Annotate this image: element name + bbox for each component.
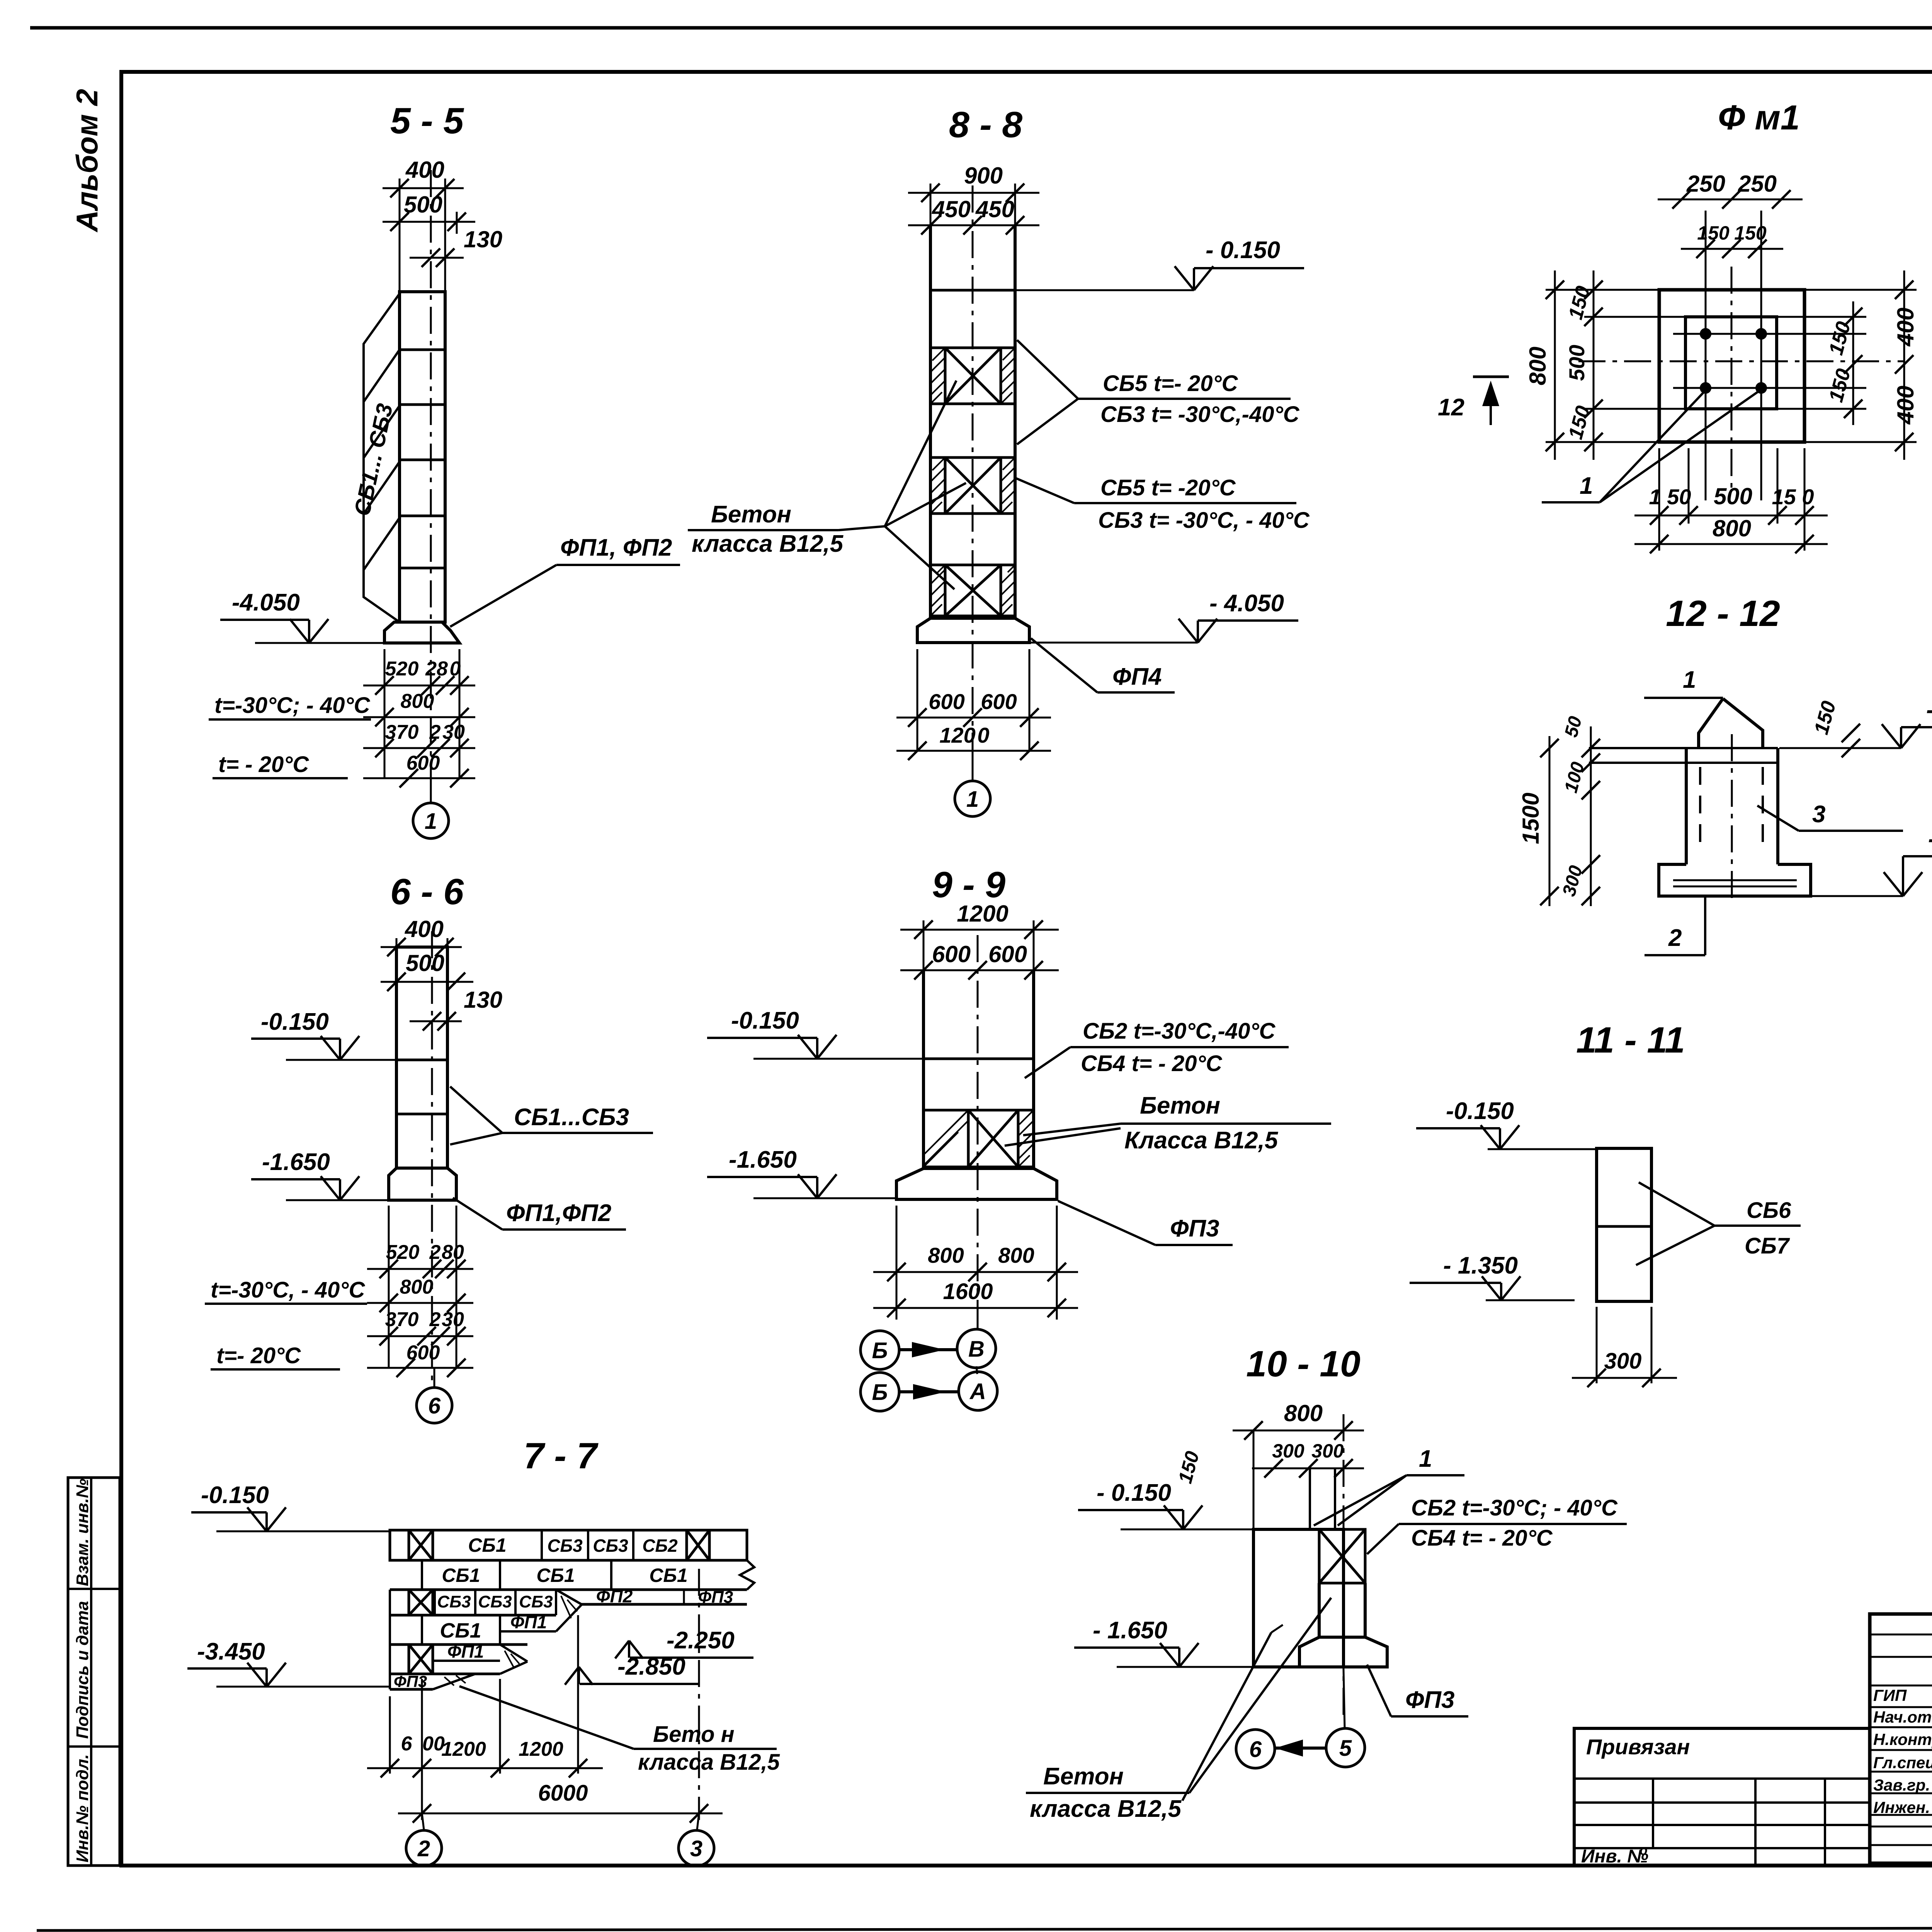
svg-text:СБ2 t=-30°С; - 40°С: СБ2 t=-30°С; - 40°С — [1411, 1495, 1618, 1520]
svg-text:800: 800 — [1525, 347, 1551, 385]
svg-text:СБ3: СБ3 — [547, 1536, 583, 1556]
svg-text:370: 370 — [385, 721, 419, 743]
12-12 pedestal pointed top — [1699, 699, 1723, 748]
8-8 column edge extension lines — [930, 184, 932, 225]
svg-text:1200: 1200 — [957, 901, 1008, 927]
svg-text:6: 6 — [428, 1393, 441, 1418]
svg-text:500: 500 — [1714, 483, 1752, 509]
7-7 thin strip FP2 FP3 — [582, 1603, 747, 1606]
svg-text:30: 30 — [442, 1308, 464, 1331]
6-6 lower dim extension lines — [388, 1206, 390, 1368]
svg-text:Бетон: Бетон — [1043, 1763, 1124, 1790]
svg-text:СБ3: СБ3 — [593, 1536, 628, 1556]
svg-text:8 - 8: 8 - 8 — [949, 104, 1022, 145]
5-5 block callout bracket — [364, 294, 400, 622]
7-7 axis circle 3 — [697, 1813, 699, 1830]
svg-text:ФП2: ФП2 — [596, 1586, 633, 1606]
svg-text:Привязан: Привязан — [1586, 1735, 1690, 1759]
svg-text:1: 1 — [425, 809, 437, 834]
svg-text:СБ3 t= -30°С,-40°С: СБ3 t= -30°С,-40°С — [1100, 402, 1300, 427]
9-9 column axis dash-dot — [977, 935, 979, 1314]
FM1 right dims 400 400 — [1903, 270, 1905, 460]
7-7 step hatch band upper — [556, 1590, 582, 1604]
svg-text:СБ3: СБ3 — [437, 1592, 471, 1611]
svg-text:СБ1: СБ1 — [442, 1565, 480, 1586]
7-7 row 5 X box and FP1 — [409, 1645, 433, 1674]
svg-text:СБ3: СБ3 — [519, 1592, 553, 1611]
svg-text:класса В12,5: класса В12,5 — [1030, 1796, 1182, 1822]
svg-text:600: 600 — [406, 752, 440, 774]
10-10 axis dash-dot — [1343, 1414, 1345, 1716]
svg-text:-2.250: -2.250 — [667, 1627, 735, 1654]
svg-text:250: 250 — [1738, 171, 1777, 197]
11-11 bottom extensions — [1596, 1307, 1598, 1383]
7-7 block wall row 1 outline — [390, 1530, 747, 1560]
FM1 dot row lines — [1673, 333, 1866, 335]
svg-text:Н.контр.: Н.контр. — [1873, 1730, 1932, 1748]
12-12 axis dash-dot — [1731, 734, 1733, 900]
svg-text:1: 1 — [1580, 473, 1593, 499]
11-11 block column — [1597, 1148, 1651, 1301]
6-6 column axis dash-dot — [431, 931, 433, 1387]
7-7 row1 block SB3 b — [632, 1530, 634, 1560]
svg-text:1600: 1600 — [943, 1279, 993, 1304]
FM1 anchor dots — [1700, 328, 1711, 340]
5-5 dim 130 line — [410, 257, 464, 259]
svg-text:800: 800 — [400, 1276, 434, 1298]
svg-text:СБ5 t= -20°С: СБ5 t= -20°С — [1100, 475, 1236, 500]
10-10 extension lines and rebar stubs — [1253, 1430, 1255, 1529]
svg-text:ФП1: ФП1 — [447, 1641, 484, 1662]
5-5 dim 500 right extension — [456, 212, 458, 234]
svg-text:СБ5 t=- 20°С: СБ5 t=- 20°С — [1103, 371, 1238, 396]
svg-text:Инв.№ подл.: Инв.№ подл. — [73, 1754, 92, 1862]
svg-text:6000: 6000 — [538, 1781, 588, 1806]
FM1 horizontal axis dash-dot — [1578, 361, 1905, 362]
svg-text:СБ1: СБ1 — [468, 1534, 506, 1556]
svg-text:300: 300 — [1272, 1440, 1304, 1462]
7-7 row 2 blocks SB1 SB1 SB1 — [390, 1559, 747, 1562]
svg-text:СБ2 t=-30°С,-40°С: СБ2 t=-30°С,-40°С — [1083, 1019, 1276, 1044]
svg-text:400: 400 — [405, 157, 444, 183]
9-9 axis circles B-V — [977, 1308, 979, 1330]
svg-text:250: 250 — [1686, 171, 1725, 197]
7-7 step hatch band mid — [500, 1645, 527, 1662]
8-8 column axis dash-dot — [972, 185, 974, 781]
FM1 vertical axis dash-dot — [1731, 267, 1733, 491]
8-8 footing FP4 — [917, 618, 1029, 643]
svg-text:0: 0 — [450, 658, 461, 680]
5-5 column body — [400, 292, 445, 622]
svg-text:600: 600 — [932, 941, 971, 967]
10-10 axis circles 6 5 — [1344, 1669, 1345, 1728]
svg-text:ГИП: ГИП — [1873, 1686, 1907, 1704]
svg-text:СБ3: СБ3 — [478, 1592, 512, 1611]
privyazan table — [1574, 1728, 1870, 1866]
svg-text:6: 6 — [1249, 1737, 1262, 1762]
svg-text:- 0.150: - 0.150 — [1097, 1480, 1171, 1506]
svg-text:-0.150: -0.150 — [1446, 1098, 1514, 1124]
8-8 block 2 with X and hatch — [930, 456, 1015, 459]
svg-text:-4.050: -4.050 — [232, 589, 300, 616]
svg-text:Б: Б — [872, 1338, 888, 1363]
5-5 dim 400 line — [383, 187, 464, 189]
svg-text:1: 1 — [1419, 1446, 1432, 1472]
5-5 footing FP polygon — [384, 622, 459, 643]
FM1 left dims 150 500 150 — [1593, 270, 1595, 460]
svg-text:300: 300 — [1311, 1440, 1344, 1462]
svg-text:12 - 12: 12 - 12 — [1666, 593, 1780, 634]
svg-text:СБ1: СБ1 — [440, 1619, 481, 1642]
svg-text:6 - 6: 6 - 6 — [390, 871, 464, 912]
svg-text:2: 2 — [417, 1836, 430, 1861]
svg-text:7 - 7: 7 - 7 — [524, 1435, 599, 1476]
svg-text:СБ6: СБ6 — [1747, 1198, 1791, 1223]
svg-text:- 1.350: - 1.350 — [1443, 1252, 1518, 1279]
svg-text:3: 3 — [690, 1836, 702, 1861]
svg-text:9 - 9: 9 - 9 — [932, 864, 1005, 905]
svg-text:Бетон: Бетон — [1140, 1092, 1220, 1119]
svg-text:120: 120 — [939, 723, 975, 747]
svg-text:300: 300 — [1604, 1349, 1642, 1374]
svg-text:Бето н: Бето н — [653, 1722, 735, 1747]
FM1 right extensions — [1804, 289, 1917, 291]
svg-text:СБ4 t= - 20°С: СБ4 t= - 20°С — [1411, 1526, 1553, 1551]
svg-text:400: 400 — [1893, 386, 1918, 425]
svg-text:900: 900 — [964, 163, 1003, 189]
svg-text:400: 400 — [1893, 308, 1918, 347]
left stamp column boxes — [68, 1478, 120, 1866]
FM1 section marker 12 left — [1473, 376, 1509, 378]
svg-text:500: 500 — [404, 192, 442, 218]
svg-text:15 0: 15 0 — [1772, 485, 1814, 509]
svg-text:3: 3 — [1812, 801, 1825, 828]
6-6 axis circle 6 — [434, 1368, 435, 1388]
12-12 floor slab double lines — [1589, 747, 1778, 749]
svg-text:ФП4: ФП4 — [1112, 663, 1162, 690]
7-7 row1 block SB2 — [685, 1530, 688, 1560]
svg-text:2: 2 — [429, 1241, 441, 1264]
svg-text:Подпись и дата: Подпись и дата — [73, 1601, 92, 1739]
svg-text:А: А — [969, 1379, 986, 1404]
svg-text:Класса В12,5: Класса В12,5 — [1124, 1127, 1279, 1154]
svg-text:класса В12,5: класса В12,5 — [692, 531, 844, 557]
5-5 axis circle 1 — [430, 778, 432, 803]
7-7 axis extension lines — [389, 1696, 391, 1774]
svg-text:2: 2 — [1668, 925, 1682, 951]
7-7 row1 block SB3 a — [587, 1530, 589, 1560]
svg-text:Инжен.: Инжен. — [1873, 1798, 1930, 1816]
FM1 left extensions — [1546, 289, 1659, 291]
svg-text:Ф м1: Ф м1 — [1718, 99, 1800, 137]
svg-text:t=-30°C, - 40°C: t=-30°C, - 40°C — [211, 1277, 365, 1303]
svg-text:1200: 1200 — [519, 1738, 563, 1760]
8-8 axis circle 1 — [972, 751, 974, 780]
svg-text:Гл.спец.: Гл.спец. — [1873, 1753, 1932, 1772]
svg-text:1500: 1500 — [1518, 793, 1544, 844]
svg-text:5 - 5: 5 - 5 — [390, 100, 464, 141]
svg-text:ФП3: ФП3 — [698, 1588, 733, 1607]
svg-text:370: 370 — [385, 1308, 419, 1331]
svg-text:ФП3: ФП3 — [1405, 1687, 1454, 1713]
12-12 rebar dashed lines — [1699, 767, 1701, 846]
8-8 block 1 with X and hatch — [930, 347, 1015, 349]
svg-text:ФП3: ФП3 — [1170, 1215, 1219, 1242]
9-9 footing FP3 — [896, 1168, 1057, 1199]
svg-text:- 0.150: - 0.150 — [1926, 697, 1932, 723]
svg-text:520: 520 — [385, 658, 419, 680]
svg-text:ФП1: ФП1 — [510, 1612, 547, 1632]
svg-text:12: 12 — [1438, 394, 1464, 421]
svg-text:800: 800 — [401, 690, 434, 713]
svg-text:800: 800 — [998, 1243, 1034, 1267]
svg-text:- 1.650: - 1.650 — [1093, 1617, 1167, 1644]
svg-text:-0.150: -0.150 — [201, 1482, 269, 1509]
7-7 row1 X box left — [409, 1530, 433, 1560]
svg-text:СБ2: СБ2 — [642, 1536, 678, 1556]
svg-text:-0.150: -0.150 — [261, 1009, 329, 1035]
svg-text:1 50: 1 50 — [1649, 485, 1691, 509]
svg-text:о: о — [1639, 1843, 1648, 1858]
svg-text:800: 800 — [1284, 1400, 1323, 1426]
svg-text:1: 1 — [1683, 667, 1696, 693]
11-11 callout SB6 SB7 — [1639, 1182, 1714, 1226]
svg-text:Взам. инв.№: Взам. инв.№ — [73, 1479, 92, 1586]
10-10 column below block — [1318, 1583, 1321, 1637]
10-10 wall rectangle — [1253, 1529, 1344, 1667]
7-7 row1 block SB1 — [432, 1530, 434, 1560]
7-7 row 3 SB3 blocks — [389, 1590, 391, 1615]
svg-text:520: 520 — [386, 1241, 420, 1264]
svg-text:СБ1...СБ3: СБ1...СБ3 — [514, 1104, 629, 1131]
svg-text:28: 28 — [425, 658, 448, 680]
svg-text:класса В12,5: класса В12,5 — [638, 1750, 780, 1775]
svg-text:-1.650: -1.650 — [729, 1146, 797, 1173]
FM1 bottom extensions — [1658, 448, 1660, 551]
svg-text:-2.850: -2.850 — [617, 1653, 685, 1680]
FM1 inner square — [1685, 317, 1777, 409]
svg-text:СБ7: СБ7 — [1745, 1233, 1790, 1259]
9-9 hatched block — [923, 1109, 1034, 1112]
svg-text:Б: Б — [872, 1380, 888, 1405]
svg-text:30: 30 — [442, 721, 465, 743]
svg-text:СБ1: СБ1 — [536, 1565, 575, 1586]
9-9 column edge extension lines — [923, 920, 925, 970]
svg-text:Бетон: Бетон — [711, 501, 791, 528]
svg-text:СБ3 t= -30°С, - 40°С: СБ3 t= -30°С, - 40°С — [1098, 508, 1310, 533]
9-9 lower dim extensions — [896, 1206, 898, 1320]
svg-text:-1.650: -1.650 — [262, 1149, 330, 1175]
title block name table rows — [1870, 1634, 1932, 1636]
FM1 right dims 150 150 — [1852, 301, 1854, 425]
8-8 concrete leader lines — [838, 526, 885, 530]
svg-text:500: 500 — [406, 950, 444, 976]
7-7 row2 right end break — [746, 1530, 748, 1560]
12-12 footing prep lines — [1673, 879, 1797, 881]
svg-text:6: 6 — [401, 1733, 413, 1755]
12-12 T footing — [1659, 864, 1811, 896]
7-7 row1 X box right — [687, 1530, 709, 1560]
FM1 vertical rebar lines — [1705, 211, 1707, 500]
6-6 column body — [396, 947, 447, 1168]
7-7 bottom FP3 strip — [389, 1674, 391, 1689]
svg-text:ФП1, ФП2: ФП1, ФП2 — [560, 534, 672, 561]
svg-text:В: В — [968, 1337, 985, 1362]
7-7 row 4 SB1 and FP1 — [389, 1615, 391, 1645]
7-7 axis circle 2 — [422, 1813, 424, 1830]
svg-text:10 - 10: 10 - 10 — [1246, 1344, 1361, 1384]
svg-text:11 - 11: 11 - 11 — [1576, 1020, 1685, 1061]
svg-text:СБ1: СБ1 — [649, 1565, 687, 1586]
svg-text:1200: 1200 — [441, 1738, 486, 1760]
svg-text:130: 130 — [464, 987, 502, 1013]
5-5 column edge extension lines — [399, 179, 401, 292]
svg-text:400: 400 — [405, 916, 444, 942]
svg-text:1: 1 — [966, 787, 979, 812]
8-8 ground line at -0.150 — [930, 289, 1015, 292]
FM1 outer square — [1659, 290, 1804, 442]
12-12 column body — [1685, 748, 1688, 864]
6-6 footing FP polygon — [389, 1168, 456, 1200]
svg-text:500: 500 — [1565, 345, 1589, 381]
sheet outer bottom border line — [37, 1927, 1932, 1930]
5-5 dim 500 line — [383, 221, 475, 223]
svg-text:-0.150: -0.150 — [731, 1007, 799, 1034]
svg-text:0: 0 — [977, 723, 989, 747]
svg-text:600: 600 — [929, 689, 964, 714]
svg-text:t= - 20°C: t= - 20°C — [218, 752, 309, 777]
svg-text:600: 600 — [988, 941, 1027, 967]
sheet outer top border line — [30, 26, 1932, 30]
svg-text:5: 5 — [1339, 1736, 1352, 1761]
svg-text:- 4.050: - 4.050 — [1209, 590, 1284, 617]
6-6 column edge extension lines — [396, 938, 398, 947]
svg-text:Альбом 2: Альбом 2 — [70, 89, 104, 233]
8-8 lower dim extensions — [917, 649, 918, 752]
FM1 left dim 800 — [1554, 270, 1556, 460]
svg-text:Инв. №: Инв. № — [1581, 1846, 1648, 1867]
svg-text:600: 600 — [981, 689, 1017, 714]
9-9 column body — [922, 970, 925, 1168]
svg-text:- 0.150: - 0.150 — [1206, 237, 1280, 264]
svg-text:800: 800 — [928, 1243, 964, 1267]
svg-text:СБ4 t= - 20°С: СБ4 t= - 20°С — [1081, 1051, 1223, 1076]
svg-text:130: 130 — [464, 226, 502, 252]
12-12 left dim 1500 — [1549, 736, 1551, 906]
10-10 X block SB — [1319, 1529, 1365, 1583]
svg-text:ФП1,ФП2: ФП1,ФП2 — [506, 1200, 611, 1226]
10-10 footing FP3 — [1299, 1637, 1387, 1667]
8-8 column body — [929, 225, 932, 618]
svg-text:-1.650: -1.650 — [1928, 826, 1932, 852]
svg-text:Зав.гр.: Зав.гр. — [1873, 1776, 1930, 1794]
5-5 column axis dash-dot line — [430, 170, 432, 803]
svg-text:t=-30°C; - 40°C: t=-30°C; - 40°C — [214, 693, 371, 718]
title block main outline — [1870, 1614, 1932, 1863]
9-9 ground line block top — [923, 1058, 1034, 1060]
svg-text:Нач.отд.: Нач.отд. — [1873, 1708, 1932, 1726]
svg-text:800: 800 — [1713, 515, 1751, 541]
svg-text:-3.450: -3.450 — [197, 1638, 265, 1665]
12-12 left small dims 50 100 300 — [1590, 726, 1592, 906]
5-5 lower dim extension lines — [384, 649, 386, 779]
svg-text:t=- 20°C: t=- 20°C — [216, 1343, 301, 1368]
9-9 axis circles B-A — [976, 1366, 977, 1374]
8-8 block 3 with X and hatch — [930, 564, 1015, 566]
